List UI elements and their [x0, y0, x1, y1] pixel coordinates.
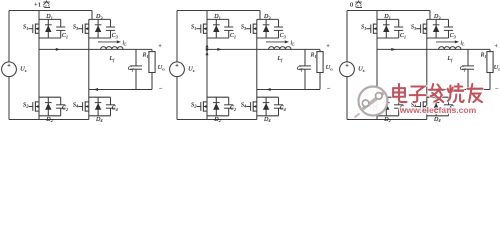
capacitor C2 [394, 97, 403, 116]
wire: bottom return from load panel 2 [257, 89, 320, 91]
wire: top edge of S2 cell [207, 96, 229, 98]
transistor S2 [28, 101, 39, 111]
label state 0 panel 3 [350, 0, 362, 8]
wire: top DC rail panel 3 [347, 10, 430, 12]
svg-text:C2: C2 [230, 105, 237, 111]
diode D3 [433, 19, 440, 38]
svg-text:C2: C2 [62, 105, 69, 111]
svg-text:R1: R1 [480, 52, 487, 58]
wire: midline to filter panel 3 [377, 48, 490, 50]
current arrow on return wire panel 1 [94, 88, 98, 91]
wire: left source rail upper panel 3 [346, 11, 348, 62]
svg-text:D1: D1 [213, 14, 221, 20]
wire: top rail drop to S3 cell panel 3 [429, 11, 431, 20]
diode D1 [45, 19, 52, 38]
current arrow up on left leg above junction panel 2 [206, 44, 209, 48]
svg-text:D4: D4 [433, 117, 441, 123]
wire: bottom edge of S1 cell [39, 37, 61, 39]
transistor S3 [78, 24, 89, 34]
svg-text:D1: D1 [45, 14, 53, 20]
wire: left bridge leg panel 1 [38, 11, 40, 120]
wire: bottom edge of S1 cell [207, 37, 229, 39]
diode D2 [45, 97, 52, 116]
transistor S4 [78, 101, 89, 111]
current arrow on return wire panel 3 [434, 88, 438, 91]
current annotation iL panel 2 [266, 40, 289, 43]
svg-text:−: − [159, 86, 163, 93]
current arrow on midline panel 1 [56, 48, 60, 51]
wire: bottom edge of S1 cell [377, 37, 399, 39]
svg-text:R1: R1 [310, 52, 317, 58]
watermark text you (友) [467, 84, 482, 102]
svg-text:C3: C3 [112, 33, 118, 39]
voltage source Us panel 2 [170, 62, 185, 77]
inductor Lf panel 3 [439, 47, 461, 50]
wire: bottom edge of S3 cell [89, 37, 111, 39]
wire: bottom edge of S3 cell [427, 37, 449, 39]
watermark text shao (烧) [448, 84, 464, 102]
svg-text:C4: C4 [280, 105, 287, 111]
capacitor C3 [444, 19, 453, 38]
wire: left source rail upper panel 1 [8, 11, 10, 62]
watermark text dian (电) [393, 84, 406, 102]
svg-text:−: − [495, 86, 499, 93]
current arrow up on left leg below junction panel 2 [206, 51, 209, 55]
wire: left source rail lower panel 3 [346, 77, 348, 120]
wire: bottom edge of S4 cell [89, 115, 111, 117]
current annotation iL panel 3 [436, 40, 459, 43]
wire: bottom edge of S2 cell [377, 115, 399, 117]
wire: top edge of S2 cell [377, 96, 399, 98]
diode D4 [263, 97, 270, 116]
svg-text:C3: C3 [280, 33, 286, 39]
wire: left source rail lower panel 2 [176, 77, 178, 120]
wire: bottom DC rail panel 2 [177, 119, 257, 121]
transistor S3 [416, 24, 427, 34]
current arrow on midline panel 3 [391, 48, 395, 51]
transistor S2 [196, 101, 207, 111]
wire: top edge of S1 cell [39, 18, 61, 20]
svg-text:D2: D2 [45, 117, 53, 123]
capacitor C3 [106, 19, 115, 38]
current arrow on return wire panel 2 [267, 88, 271, 91]
voltage source Us panel 1 [2, 62, 17, 77]
svg-text:D2: D2 [213, 117, 221, 123]
wire: left source rail lower panel 1 [8, 77, 10, 120]
wire: midline to filter panel 2 [207, 48, 320, 50]
junction node dot panel 2 [206, 48, 209, 51]
svg-text:D4: D4 [95, 117, 103, 123]
wire: left source rail upper panel 2 [176, 11, 178, 62]
wire: top edge of S2 cell [39, 96, 61, 98]
transistor S1 [366, 24, 377, 34]
wire: bottom edge of S4 cell [257, 115, 279, 117]
svg-text:+: + [158, 43, 162, 50]
svg-text:+: + [326, 43, 330, 50]
svg-text:D3: D3 [263, 14, 271, 20]
wire: top DC rail panel 2 [177, 10, 260, 12]
capacitor C1 [56, 19, 65, 38]
capacitor C3 [274, 19, 283, 38]
diode D2 [383, 97, 390, 116]
svg-text:C1: C1 [230, 33, 236, 39]
capacitor C2 [56, 97, 65, 116]
watermark text zi (子) [410, 87, 426, 103]
svg-text:C1: C1 [62, 33, 68, 39]
svg-text:C3: C3 [450, 33, 456, 39]
diode D3 [263, 19, 270, 38]
wire: top edge of S4 cell [257, 96, 279, 98]
svg-text:+: + [494, 43, 498, 50]
current arrow on midline panel 2 [217, 48, 221, 51]
inductor Lf panel 1 [101, 47, 123, 50]
wire: top edge of S3 cell [257, 18, 279, 20]
capacitor Cf panel 3 [462, 49, 474, 89]
capacitor Cf panel 1 [130, 49, 142, 89]
watermark text fa (发) [429, 84, 444, 102]
wire: top edge of S3 cell [427, 18, 449, 20]
current annotation iL panel 1 [98, 40, 121, 43]
wire: top edge of S1 cell [377, 18, 399, 20]
wire: bottom DC rail panel 3 [347, 119, 427, 121]
svg-text:iL: iL [291, 40, 296, 46]
wire: left bridge leg panel 2 [206, 11, 208, 120]
transistor S1 [196, 24, 207, 34]
diode D4 [95, 97, 102, 116]
svg-text:www.elecfans.com: www.elecfans.com [399, 105, 477, 115]
svg-text:D3: D3 [433, 14, 441, 20]
capacitor Cf panel 2 [299, 49, 311, 89]
capacitor C2 [224, 97, 233, 116]
diode D4 [433, 97, 440, 116]
wire: bottom DC rail panel 1 [9, 119, 89, 121]
inductor Lf panel 2 [269, 47, 291, 50]
wire: left bridge leg panel 3 [376, 11, 378, 120]
resistor R1 panel 1 [149, 49, 155, 89]
svg-text:R1: R1 [142, 52, 149, 58]
wire: bottom edge of S2 cell [207, 115, 229, 117]
capacitor C1 [224, 19, 233, 38]
svg-text:+1: +1 [34, 1, 41, 8]
svg-text:D3: D3 [95, 14, 103, 20]
transistor S4 [246, 101, 257, 111]
wire: top edge of S4 cell [89, 96, 111, 98]
wire: bottom edge of S3 cell [257, 37, 279, 39]
svg-text:D2: D2 [383, 117, 391, 123]
wire: bottom edge of S2 cell [39, 115, 61, 117]
wire: top edge of S3 cell [89, 18, 111, 20]
svg-text:iL: iL [461, 40, 466, 46]
resistor R1 panel 2 [317, 49, 323, 89]
wire: top edge of S1 cell [207, 18, 229, 20]
wire: bottom return from load panel 3 [427, 89, 490, 91]
wire: right bridge leg panel 2 [256, 19, 258, 119]
wire: bottom return from load panel 1 [89, 89, 152, 91]
svg-text:D1: D1 [383, 14, 391, 20]
wire: right bridge leg panel 3 [426, 19, 428, 119]
label state +1 panel 1 [34, 0, 50, 8]
diode D1 [213, 19, 220, 38]
wire: top rail drop to S3 cell panel 1 [91, 11, 93, 20]
wire: top DC rail panel 1 [9, 10, 92, 12]
watermark logo circle [355, 87, 388, 118]
transistor S2 [366, 101, 377, 111]
voltage source Us panel 3 [340, 62, 355, 77]
wire: top edge of S4 cell [427, 96, 449, 98]
wire: top rail drop to S3 cell panel 2 [259, 11, 261, 20]
capacitor C4 [444, 97, 453, 116]
transistor S3 [246, 24, 257, 34]
wire: midline to filter panel 1 [39, 48, 152, 50]
diode D2 [213, 97, 220, 116]
svg-text:C1: C1 [400, 33, 406, 39]
capacitor C1 [394, 19, 403, 38]
resistor R1 panel 3 [487, 49, 493, 89]
transistor S4 [416, 101, 427, 111]
wire: right bridge leg panel 1 [88, 19, 90, 119]
svg-text:−: − [327, 86, 331, 93]
wire: bottom edge of S4 cell [427, 115, 449, 117]
capacitor C4 [106, 97, 115, 116]
svg-text:C4: C4 [112, 105, 119, 111]
transistor S1 [28, 24, 39, 34]
svg-text:iL: iL [123, 40, 128, 46]
capacitor C4 [274, 97, 283, 116]
diode D1 [383, 19, 390, 38]
svg-text:D4: D4 [263, 117, 271, 123]
diode D3 [95, 19, 102, 38]
